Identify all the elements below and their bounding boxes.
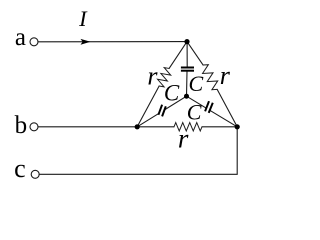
- capacitor C2 (branch M-BL): lead from M: [165, 96, 187, 110]
- resistor R2 zigzag: [203, 65, 218, 90]
- capacitor C3 (branch M-BR): lead from M: [187, 96, 207, 108]
- capacitor C3: lead to BR: [210, 110, 237, 127]
- capacitor C3 plates: [205, 101, 209, 111]
- resistor R2: lead to BR: [217, 89, 237, 126]
- svg-text:C: C: [189, 71, 204, 96]
- svg-text:c: c: [14, 154, 26, 183]
- terminal c: [31, 170, 39, 178]
- resistor R1 zigzag: [158, 68, 171, 87]
- capacitor C1: bottom lead: [186, 72, 189, 97]
- current arrow I: [81, 39, 91, 45]
- node T (top vertex): [184, 39, 189, 44]
- svg-text:r: r: [147, 62, 158, 91]
- resistor R3 zigzag: [174, 123, 202, 131]
- svg-text:C: C: [187, 100, 202, 125]
- resistor R1 (edge T-BL): lead from top: [169, 42, 187, 69]
- svg-text:b: b: [15, 112, 28, 139]
- resistor R3 (edge BL-BR): lead from BL: [137, 126, 174, 128]
- terminal b: [30, 123, 38, 131]
- node BR (bottom-right vertex): [235, 124, 240, 129]
- resistor R1: lead to BL: [137, 86, 159, 127]
- terminal a: [30, 38, 38, 46]
- svg-text:C: C: [164, 80, 180, 105]
- svg-text:r: r: [220, 61, 231, 90]
- capacitor C1 plates: [181, 67, 194, 69]
- resistor R3: lead to BR: [202, 126, 237, 128]
- capacitor C2: lead to BL: [137, 113, 159, 127]
- wire b: [38, 126, 137, 128]
- wire c: [39, 127, 237, 175]
- node BL (bottom-left vertex): [135, 124, 140, 129]
- resistor R2 (edge T-BR): lead from top: [187, 42, 203, 65]
- wire a: [38, 41, 187, 43]
- svg-text:r: r: [178, 123, 189, 153]
- node M (capacitor star point): [184, 94, 189, 99]
- capacitor C2 plates: [158, 105, 162, 115]
- svg-text:I: I: [78, 6, 88, 31]
- capacitor C1 (branch T-M): top lead: [186, 42, 188, 67]
- svg-text:a: a: [15, 24, 26, 51]
